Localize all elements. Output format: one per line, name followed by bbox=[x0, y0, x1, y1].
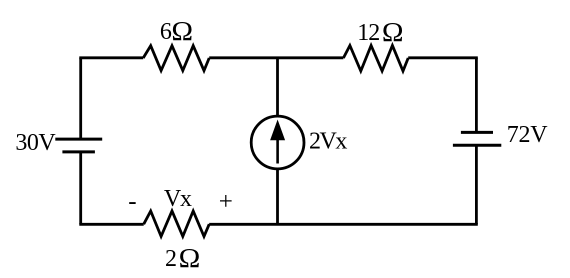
svg-text:72V: 72V bbox=[507, 122, 548, 148]
battery V2 72V short plate bbox=[461, 131, 493, 134]
battery V2 72V long plate bbox=[453, 144, 501, 147]
current source arrow head bbox=[270, 120, 285, 141]
svg-text:6: 6 bbox=[160, 19, 172, 45]
current source arrow shaft bbox=[276, 139, 279, 164]
wire top-left horizontal bbox=[81, 58, 144, 59]
battery V1 30V short plate bbox=[62, 150, 95, 153]
current source U1 circle bbox=[251, 116, 304, 169]
wire middle vertical lower bbox=[276, 169, 279, 224]
wire middle vertical upper bbox=[276, 58, 279, 116]
svg-text:30V: 30V bbox=[15, 130, 56, 156]
resistor R2 12ohm zigzag bbox=[343, 46, 408, 72]
svg-text:Ω: Ω bbox=[171, 17, 193, 47]
svg-text:2Vx: 2Vx bbox=[309, 129, 347, 155]
resistor R3 2ohm Vx zigzag bbox=[144, 211, 210, 236]
resistor R1 6ohm zigzag bbox=[143, 46, 209, 71]
svg-text:2: 2 bbox=[165, 246, 177, 272]
wire bottom-left horizontal bbox=[81, 223, 144, 224]
wire left vertical lower bbox=[79, 152, 82, 224]
wire left vertical upper bbox=[79, 58, 82, 139]
wire right vertical lower bbox=[475, 145, 478, 224]
svg-text:Vx: Vx bbox=[164, 186, 192, 212]
wire top-middle horizontal bbox=[209, 56, 343, 59]
svg-text:-: - bbox=[128, 188, 136, 215]
wire bottom-right horizontal bbox=[209, 223, 476, 224]
svg-text:12: 12 bbox=[357, 20, 379, 46]
wire right vertical upper bbox=[475, 58, 478, 133]
battery V1 30V long plate bbox=[55, 138, 102, 141]
svg-text:Ω: Ω bbox=[382, 18, 404, 48]
wire top-right horizontal bbox=[408, 58, 476, 59]
svg-text:Ω: Ω bbox=[179, 244, 201, 274]
svg-text:+: + bbox=[219, 188, 233, 215]
